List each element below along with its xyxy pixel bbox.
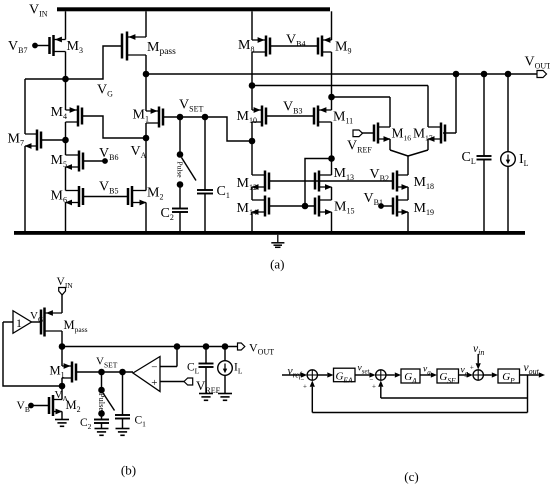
svg-text:+: + [303,383,307,391]
svg-text:+: + [151,377,157,389]
svg-text:(b): (b) [121,463,136,478]
svg-text:−: − [151,362,157,374]
svg-text:1: 1 [16,316,22,330]
svg-text:Pulse: Pulse [176,161,185,178]
svg-text:(c): (c) [404,469,418,484]
svg-text:+: + [372,383,376,391]
svg-text:(a): (a) [270,257,284,272]
svg-text:+: + [470,363,474,371]
svg-text:Pulse: Pulse [97,393,107,412]
